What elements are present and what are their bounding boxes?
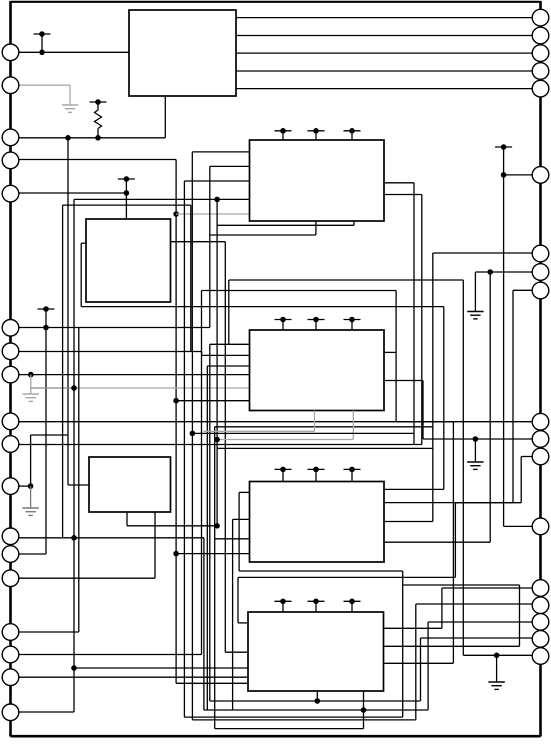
connector pin PR7 [532,245,549,262]
testpoint TP6 [344,128,361,140]
connector pin PR3 [532,45,549,62]
connector pin PR4 [532,63,549,80]
wire lateral 433 net [192,432,414,434]
wire U4 right pin 380 to PR11 [384,381,532,440]
connector pin PL1 [2,44,19,61]
wire U5 left pin 519 net [233,519,251,710]
wire riser x192 low [191,352,193,433]
resistor R1 [95,110,102,138]
node junction U7 bottom [214,523,220,529]
ground GND5 [467,439,483,469]
node U6 bottom pin2 junction [361,707,367,713]
wire U6 bottom pin1 [316,691,318,701]
wire right bus rail [539,1,542,737]
wire G6 net riser [463,280,532,655]
wire stem GND3 [30,486,32,508]
wire gray stem GND2 [30,375,32,394]
wire PL12 net to PR16 [19,538,532,710]
wire U5 right pin 502 to PR9 [384,290,532,502]
wire net 272 to PR8 [475,271,532,273]
wire PL16 long net to U4 pin [19,291,396,655]
wire PL17 to U6 [19,676,248,678]
wire PL10 to U3 pin5 [19,195,422,445]
connector pin PL3 [2,129,19,146]
wire U1 out1 to PR1 [236,17,533,19]
connector pin PL12 [2,528,19,545]
wire U4 pin 366 net [207,366,250,710]
wire U5 left pin 539 [215,538,251,540]
wire U5 left pin 492 to U6 [239,492,519,717]
wire PL2 to ground (gray) [19,85,70,105]
ground GND6 [488,655,504,689]
wire lateral 448 net [217,447,433,449]
wire lateral 205 net [63,205,191,537]
connector pin PR8 [532,264,549,281]
wire top border [11,1,541,3]
connector pin PL2 [2,77,19,94]
wire PL14 to U7 bottom2 [19,512,155,578]
wire U1 out3 to PR3 [236,52,533,54]
connector pin PR10 [532,413,549,430]
connector pin PR14 [532,580,549,597]
connector pin PL4 [2,152,19,169]
wire riser x68 to U7 [68,138,90,485]
wire U7 bottom route [127,512,217,526]
testpoint TP12 [344,467,361,482]
wire riser x217 to U7 bottom [216,199,218,525]
wire PL7 to U4 pin 355 [19,352,202,356]
wire U1 input from PL1 [19,51,129,53]
node PL8 ground junction [28,372,34,378]
wire PL3 net to U1 bottom [19,96,165,138]
wire U4 right pin [384,351,396,353]
node riser x74 junction U6 [71,665,77,671]
testpoint TP15 [344,599,361,613]
connector pin PR9 [532,282,549,299]
connector pin PL8 [2,366,19,383]
node U2 top junction [124,190,130,196]
node TP3 junction [43,325,49,331]
testpoint TP13 [275,599,292,613]
wire gray net to U4 [31,387,251,389]
connector pin PR18 [532,648,549,665]
wire PL4 riser net to U6 [19,160,250,684]
connector pin PR11 [532,431,549,448]
testpoint TP17 [118,176,135,193]
wire bottom border [11,735,541,738]
wire U3 pin1 riser [192,152,250,352]
connector pin PR17 [532,631,549,648]
wire branch to U6 pin [74,667,249,669]
connector pin PL14 [2,570,19,587]
IC U4 [250,330,385,411]
wire gray branch to U3 [176,213,250,215]
wire U1 out2 to PR2 [236,35,533,37]
wire PL8 to U4 pin [19,374,251,376]
wire U6 pin 623 from PR12 net [238,457,532,623]
connector pin PL7 [2,343,19,360]
testpoint TP16 [495,144,512,178]
connector pin PL13 [2,546,19,563]
wire net 717 [184,716,402,718]
wire PL15 riser lateral [19,328,79,633]
wire U3 bottom pin2 route [217,221,354,225]
IC U7 [89,457,171,512]
wire TP16 riser to PR13 [504,175,533,527]
connector pin PL10 [2,436,19,453]
wire U4 gray bottom pin2 [217,411,353,440]
wire U3 right pin upper [384,183,414,445]
wire U6 right pin 628 to PR14 [384,588,533,628]
node junction 272 [487,269,493,275]
IC U1 [129,10,236,96]
ground GND2 gray [23,394,39,401]
testpoint TP9 [344,317,361,330]
node U6 bottom pin1 junction [315,698,321,704]
ground GND1 gray [62,105,78,112]
wire U3 pin3 link [184,180,250,182]
wire PL5 to U2 top [19,193,126,219]
node PL11 ground junction [28,483,34,489]
node junction 433 [190,431,196,437]
IC U3 [250,140,385,221]
wire U6 bottom pin2 [363,691,365,729]
wire left bus rail [9,1,12,737]
wire PL18 riser net to U3 pin4 [19,199,251,712]
wire lateral 427 net to 729 [215,427,433,729]
node junction 439 [214,437,220,443]
testpoint TP1 [34,31,51,55]
wire U2 left pin wrap to U5 [81,243,444,489]
testpoint TP2 [90,99,107,110]
wire bus riser A [183,181,185,717]
wire net 422 to PR10 [396,421,532,423]
wire U4 pin 355 net [202,354,251,356]
wire U3 bottom pin1 route [210,221,316,235]
wire U4 gray bottom pin1 [203,411,314,432]
wire riser x46 to PL13 [19,328,46,555]
wire branch to U5 pin [176,553,250,555]
wire branch to U4 pin [176,400,250,402]
testpoint TP4 [275,128,292,140]
node riser junction gray U3 [173,211,179,217]
connector pin PR15 [532,597,549,614]
connector pin PL11 [2,478,19,495]
wire U1 out5 to PR5 [236,88,533,90]
connector pin PL15 [2,624,19,641]
connector pin PR13 [532,518,549,535]
connector pin PL16 [2,646,19,663]
connector pin PL5 [2,185,19,202]
connector pin PL6 [2,320,19,337]
wire net 638 to PR17 [421,638,533,701]
wire U1 out4 to PR4 [236,70,533,72]
wire TP16 net to PR6 [504,174,533,176]
wire U5 right pin 521 to PR7 [384,253,532,522]
testpoint TP8 [308,317,325,330]
node riser junction U5 [173,551,179,557]
connector pin PR6 [532,167,549,184]
connector pin PL9 [2,413,19,430]
wire PL11 riser to ground net [19,435,68,486]
testpoint TP3 [38,306,55,327]
connector pin PL18 [2,704,19,721]
node GND5 junction [473,436,479,442]
node G6 junction [494,653,500,659]
ground GND3 [22,508,38,515]
ground GND4 [467,272,483,319]
wire net 720 to PR15 [192,433,532,720]
node junction riser x68 [65,135,71,141]
connector pin PR1 [532,9,549,26]
connector pin PR5 [532,80,549,97]
node riser junction U4 [173,398,179,404]
wire branch 280 to G6 net [229,280,463,344]
node gray net junction x74 [71,385,77,391]
testpoint TP11 [308,467,325,482]
connector pin PR12 [532,448,549,465]
IC U5 [250,482,385,563]
connector pin PL17 [2,669,19,686]
node junction resistor bottom [95,135,101,141]
wire U5 right pin 542 net [384,272,490,542]
connector pin PR2 [532,27,549,44]
testpoint TP14 [308,599,325,613]
testpoint TP5 [308,128,325,140]
IC U2 [86,219,171,302]
node junction pin4 net [214,197,220,203]
node PL12 junction riser x74 [71,535,77,541]
wire PL9 net to U6 out [19,422,453,664]
wire PL6 to U3 pin2 [19,166,251,327]
wire U4 pin 344 riser to 701 [210,344,420,701]
testpoint TP10 [275,467,292,482]
wire U2 right pin to U6 [171,242,249,653]
testpoint TP7 [275,317,292,330]
IC U6 [248,612,384,691]
connector pin PR16 [532,614,549,631]
